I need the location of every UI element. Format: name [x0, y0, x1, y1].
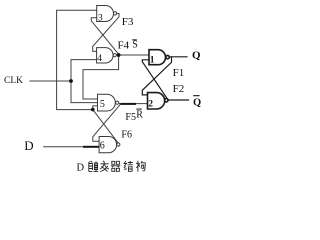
svg-text:1: 1 [150, 56, 155, 66]
svg-text:4: 4 [97, 54, 102, 64]
svg-text:Q: Q [192, 50, 201, 62]
svg-text:5: 5 [100, 99, 105, 110]
svg-text:D: D [77, 163, 85, 174]
svg-text:6: 6 [100, 141, 105, 152]
svg-text:F2: F2 [173, 83, 185, 95]
svg-text:S: S [132, 40, 138, 51]
svg-text:F4: F4 [118, 40, 130, 52]
svg-text:F3: F3 [122, 16, 134, 28]
svg-text:F1: F1 [173, 67, 185, 79]
svg-text:2: 2 [148, 100, 153, 110]
svg-text:Q: Q [193, 97, 201, 108]
svg-text:F6: F6 [121, 130, 132, 141]
svg-text:CLK: CLK [4, 76, 23, 86]
svg-text:R: R [136, 109, 143, 120]
svg-text:D: D [24, 138, 33, 153]
svg-text:F5: F5 [125, 112, 136, 123]
svg-text:3: 3 [98, 13, 103, 23]
